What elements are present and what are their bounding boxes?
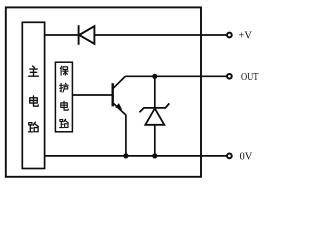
- wire: 0V line from main circuit to terminal: [45, 155, 227, 157]
- transistor Q1 (NPN): [113, 76, 126, 115]
- terminal +V: [227, 33, 232, 38]
- enclosure outline: [6, 7, 201, 176]
- wire: base from protection circuit to Q1: [72, 94, 112, 96]
- wire: diode anode to +V terminal: [94, 34, 226, 36]
- svg-text:0V: 0V: [240, 152, 253, 163]
- wire: emitter down to 0V line: [125, 115, 127, 156]
- terminal OUT: [227, 74, 232, 79]
- diode D1 (reverse-polarity protection, cathode bar left, triangle pointing left): [79, 25, 95, 45]
- wire: main circuit to diode cathode: [45, 34, 79, 36]
- junction: OUT line / zener cathode: [152, 74, 157, 79]
- terminal 0V: [227, 154, 232, 159]
- wire: collector to OUT terminal: [125, 75, 227, 77]
- wire: zener cathode from OUT junction: [154, 76, 156, 108]
- label 主电路 (main circuit): [28, 66, 38, 132]
- junction: zener anode / 0V line: [152, 153, 157, 158]
- label 保护电路 (protection circuit): [60, 66, 69, 127]
- main circuit block: [22, 22, 44, 168]
- junction: emitter / 0V line: [123, 153, 128, 158]
- zener diode ZD1: [140, 103, 170, 124]
- svg-text:OUT: OUT: [241, 72, 259, 83]
- protection circuit block: [55, 62, 72, 132]
- wire: zener anode to 0V line: [154, 125, 156, 156]
- svg-text:+V: +V: [239, 31, 253, 42]
